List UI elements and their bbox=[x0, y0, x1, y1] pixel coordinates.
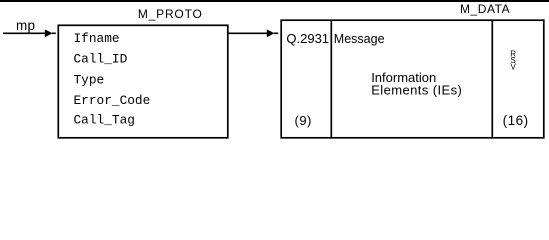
svg-text:(9): (9) bbox=[295, 113, 312, 128]
svg-text:M_PROTO: M_PROTO bbox=[138, 7, 203, 21]
svg-text:Call_ID: Call_ID bbox=[74, 52, 128, 67]
svg-text:mp: mp bbox=[16, 18, 35, 33]
svg-text:M_DATA: M_DATA bbox=[460, 2, 510, 16]
svg-text:V: V bbox=[511, 63, 517, 72]
divider Q.2931 | Message bbox=[330, 20, 332, 138]
arrowhead into M_DATA bbox=[267, 29, 278, 37]
svg-text:Q.2931: Q.2931 bbox=[286, 31, 329, 46]
svg-text:Ifname: Ifname bbox=[74, 31, 120, 46]
svg-text:(16): (16) bbox=[503, 113, 529, 128]
svg-text:Message: Message bbox=[334, 32, 385, 46]
wire mp to M_PROTO bbox=[3, 32, 46, 34]
svg-text:Error_Code: Error_Code bbox=[74, 93, 151, 108]
arrowhead into M_PROTO bbox=[45, 29, 56, 37]
svg-text:Elements (IEs): Elements (IEs) bbox=[371, 82, 462, 97]
svg-text:Call_Tag: Call_Tag bbox=[74, 113, 135, 128]
field RSV vertical bbox=[510, 50, 516, 72]
svg-text:Type: Type bbox=[74, 72, 105, 87]
divider Message | RSV bbox=[491, 20, 493, 138]
wire M_PROTO to M_DATA bbox=[229, 32, 268, 34]
box M_DATA bbox=[281, 20, 544, 138]
box M_PROTO bbox=[58, 25, 228, 138]
top rule bbox=[0, 0, 549, 2]
